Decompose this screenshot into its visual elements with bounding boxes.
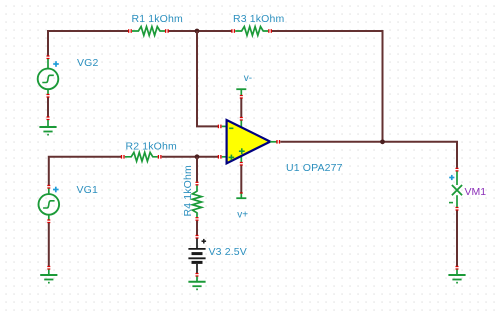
voltage source VG1 [39, 186, 60, 215]
wire N1 down to op-amp inverting input [197, 31, 218, 126]
wire VG2 bottom [47, 89, 50, 119]
op-amp U1 output pin [270, 140, 279, 144]
svg-text:R4 1kOhm: R4 1kOhm [182, 165, 194, 216]
ground V3 [188, 277, 205, 291]
resistor R4 [192, 182, 201, 220]
svg-text:R2 1kOhm: R2 1kOhm [126, 140, 177, 152]
wire R1 to R3 [168, 30, 231, 32]
label VG1 [77, 184, 98, 196]
label R4 value (vertical) [182, 165, 194, 216]
op-amp U1 negative supply pin v- [236, 89, 246, 127]
node N3 junction dot output [380, 139, 385, 144]
label R2 value [126, 140, 177, 152]
label U1 OPA277 [286, 162, 343, 174]
label VG2 [77, 57, 98, 69]
svg-text:VG2: VG2 [77, 57, 98, 69]
ground VM1 [448, 270, 465, 284]
svg-text:R1 1kOhm: R1 1kOhm [132, 13, 183, 25]
svg-text:V3 2.5V: V3 2.5V [209, 246, 247, 258]
wire R3 to output column [272, 31, 383, 142]
svg-text:v+: v+ [237, 210, 248, 221]
wire VM1 ground ticks [456, 267, 459, 270]
node N1 junction dot R1/R3 [195, 29, 200, 34]
battery V3 [188, 236, 206, 274]
label VM1 [465, 186, 487, 198]
op-amp U1 positive supply pin v+ [236, 157, 246, 199]
wire R2 to op-amp noninverting input [162, 156, 218, 158]
svg-text:VG1: VG1 [77, 184, 98, 196]
label v+ [237, 210, 248, 221]
voltmeter VM1 [449, 168, 462, 210]
svg-text:v-: v- [244, 73, 252, 84]
label V3 value [209, 246, 247, 258]
ground VG2 [39, 120, 56, 136]
wire R4 to V3 [196, 221, 198, 235]
op-amp U1 input pin ticks [218, 125, 226, 159]
resistor R1 [129, 27, 168, 36]
op-amp U1 triangle [227, 120, 271, 163]
resistor R3 [232, 27, 271, 36]
label R1 value [132, 13, 183, 25]
wire N2 down to R4 [196, 157, 198, 182]
svg-text:VM1: VM1 [465, 186, 487, 198]
wire VG1 top to R2 [49, 157, 121, 185]
svg-text:U1 OPA277: U1 OPA277 [286, 162, 343, 174]
wire output to VM1 [280, 142, 457, 168]
node N2 junction dot R2/R4 [195, 154, 200, 159]
wire VG1 bottom [47, 215, 50, 269]
label R3 value [233, 13, 284, 25]
svg-text:R3 1kOhm: R3 1kOhm [233, 13, 284, 25]
wire VG2 top to R1 [48, 31, 129, 56]
wire VM1 to ground [456, 211, 458, 267]
resistor R2 [122, 152, 161, 161]
label v- [244, 73, 252, 84]
ground VG1 [40, 270, 57, 284]
wire V3 bottom [196, 274, 199, 277]
voltage source VG2 [38, 56, 59, 89]
